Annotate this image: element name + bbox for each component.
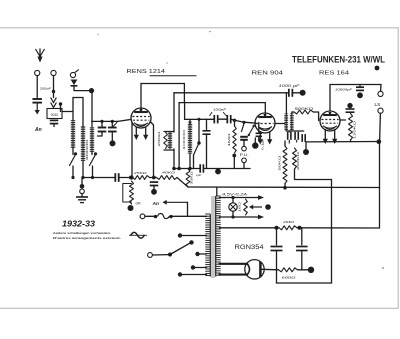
stub below cap [53, 124, 55, 127]
wire V3 right [340, 119, 346, 121]
stub Y3 to transformer [216, 188, 218, 197]
short wire under label [150, 75, 196, 77]
svg-text:RGN354: RGN354 [235, 244, 264, 251]
junction Y3 x285 [283, 186, 287, 190]
dot below 10000pF [357, 92, 363, 98]
capacitor anode V3 [346, 109, 355, 112]
svg-text:P.U.: P.U. [240, 153, 249, 157]
capacitor PU [240, 137, 248, 140]
junction left of box [59, 102, 62, 105]
wire x184 to chain [184, 103, 186, 120]
tube REN904 V2 [255, 113, 275, 133]
svg-text:1MΩ: 1MΩ [227, 132, 231, 147]
coupling coil primary [284, 114, 288, 132]
fuse dot right [169, 215, 172, 218]
svg-text:An: An [34, 127, 42, 133]
cathode arrows V2 [258, 131, 273, 145]
svg-text:200KΩ: 200KΩ [296, 151, 300, 170]
wire REN904 top [264, 103, 266, 114]
resistor 1M grid leak [233, 126, 236, 153]
resistor 2M smoothing [279, 226, 297, 230]
junction LS return [377, 139, 382, 144]
junction Y1 x174 [172, 167, 176, 171]
series sensor symbol [71, 80, 78, 86]
resistor 30K to Y3 [186, 169, 190, 188]
svg-text:100pF: 100pF [213, 108, 228, 112]
coil L1 [71, 120, 75, 148]
lamp stub top [232, 198, 234, 203]
wire fuse to transformer [173, 215, 207, 217]
stub blob Y1 [217, 169, 219, 171]
AC sine symbol [129, 232, 147, 238]
junction Y2 coil L3 [91, 176, 94, 179]
svg-text:16Ω: 16Ω [237, 201, 241, 212]
stub cap C7 [206, 119, 208, 129]
coupling coil secondary [290, 114, 294, 132]
svg-text:D'autres arrangements existent: D'autres arrangements existent. [53, 236, 121, 240]
arrow heater left [249, 205, 262, 210]
tap wire 2 [200, 253, 207, 255]
loudspeaker terminal LS2 [378, 108, 383, 113]
switch grid [248, 125, 255, 136]
capacitor C11 [295, 132, 298, 140]
junction dot A3 wire [89, 88, 94, 93]
stub cap x153 [153, 186, 155, 189]
svg-text:TELEFUNKEN-231 W/WL: TELEFUNKEN-231 W/WL [292, 55, 385, 65]
filament wire top [219, 197, 258, 199]
resistor 25K [133, 176, 150, 180]
wire x199 down [198, 119, 200, 142]
capacitor 200pF antenna [32, 99, 42, 103]
svg-text:RENS 1214: RENS 1214 [127, 69, 166, 75]
filter cap wire 2 [301, 228, 303, 245]
capacitor C10 [288, 132, 291, 140]
capacitor 1000pF [289, 89, 293, 97]
selector pivot [168, 253, 172, 257]
dial lamp [229, 203, 237, 211]
wire grid cap [258, 123, 260, 133]
stub dot C11 [305, 143, 307, 149]
switch S3 pivot [197, 141, 200, 144]
wire under coupling coil [286, 130, 303, 132]
wire C7 to bus [206, 135, 208, 169]
ink blot near title [375, 66, 380, 71]
svg-text:25KΩ: 25KΩ [132, 171, 147, 175]
pair bottom stub [164, 149, 174, 151]
svg-text:RES 164: RES 164 [319, 71, 349, 77]
speck 3 [382, 267, 384, 269]
wire Y2 to ground [81, 178, 83, 185]
wire coil to 500K [292, 112, 294, 114]
wire y93 link [174, 92, 288, 94]
filter cap wire 1 [276, 228, 278, 245]
switch S3 [194, 143, 200, 155]
svg-text:1932-33: 1932-33 [62, 220, 95, 229]
stub anode cap [349, 106, 351, 109]
switch S2 [90, 155, 96, 166]
wire caps to REN904 grid [231, 119, 256, 123]
wire 500K to RES164 grid [313, 112, 318, 121]
dot above anode cap [347, 103, 352, 108]
tube RGN354 V4 [245, 260, 264, 279]
terminal above ground [80, 189, 85, 194]
stub L3 bottom [91, 152, 93, 155]
junction chain x199 [198, 118, 201, 121]
stub L1 bottom [72, 148, 74, 155]
svg-text:10000: 10000 [182, 129, 186, 150]
wave trap box 0010 [47, 109, 62, 119]
chain wire y119 [185, 118, 215, 120]
switch S1 [70, 155, 76, 166]
wire under T1 [98, 132, 103, 137]
coil L2 [81, 126, 85, 161]
stub cathode left V2 [254, 138, 256, 143]
switch tick at A3 [75, 70, 78, 72]
speck 2 [209, 31, 211, 33]
dot above ground [80, 184, 85, 189]
pair top stub [164, 131, 174, 133]
transformer secondary winding [216, 196, 221, 277]
resistor 16 ohm [244, 199, 248, 215]
tube RENS1214 V1 [131, 108, 151, 128]
svg-text:10000pF: 10000pF [335, 88, 354, 92]
wire PU to bus [243, 163, 245, 169]
junction on A2 wire [52, 90, 55, 93]
lamp junction top [231, 196, 234, 199]
tap wire 1 [182, 235, 207, 237]
wire y141 output [306, 141, 380, 143]
stub junction [60, 104, 62, 112]
svg-text:50KΩ: 50KΩ [278, 154, 282, 170]
double arrowheads down [51, 98, 57, 108]
dot 1000pF [300, 90, 306, 96]
junction Y4 b [298, 226, 302, 230]
wire down to coil L3 [91, 93, 93, 127]
coil L4 cathode [168, 132, 172, 150]
capacitor series Y2 [115, 173, 118, 182]
bottom return wire [277, 282, 332, 284]
mains terminal M2 [148, 253, 153, 258]
wire V2 anode out [275, 123, 285, 125]
switch PU [242, 124, 245, 132]
coupling wire y103 [179, 102, 265, 104]
wire L5 top [189, 119, 191, 123]
wire RES164 top [329, 85, 331, 112]
stub 50K top [284, 141, 286, 146]
antenna terminal A1 [35, 70, 40, 75]
wire L2 to bus [82, 161, 84, 178]
svg-text:200Ω: 200Ω [157, 130, 161, 147]
resistor 50K [283, 146, 287, 184]
label ticks 100pF [210, 112, 227, 116]
stub C10 [288, 130, 290, 133]
capacitor C7 [203, 131, 211, 134]
wire S3 to bus [193, 155, 195, 169]
terminal PU1 [242, 146, 247, 151]
stub C10b [289, 140, 296, 144]
coil L5 anode load [188, 123, 192, 154]
wire A3 to junction [74, 86, 89, 91]
arrow to An [35, 103, 40, 115]
svg-text:Andere schaltungen vorhanden.: Andere schaltungen vorhanden. [53, 231, 111, 235]
wire 200K to x331 [295, 169, 332, 180]
filter capacitor C14 [296, 247, 308, 251]
junction Y2 coil L1 [71, 176, 74, 179]
resistor 40K [157, 176, 178, 180]
resistor 120K [349, 114, 353, 141]
stub 120K bottom [350, 140, 352, 142]
resistor 600 ohm [279, 268, 298, 272]
junction Y2 x153 [152, 176, 156, 180]
capacitor C12 [302, 134, 305, 142]
wire 600 ohm out [298, 269, 309, 271]
wire top of coil L2 [73, 98, 83, 127]
coil L5 top arrow [188, 122, 192, 126]
svg-text:40KΩ: 40KΩ [162, 171, 176, 175]
dot below cap x153 [151, 189, 157, 195]
selector arm tip [189, 240, 193, 244]
stub under T2 [111, 132, 113, 141]
resistor 200 ohm [164, 132, 168, 149]
loudspeaker terminal LS1 [378, 91, 383, 96]
wire top of coil L1 [72, 98, 74, 121]
stub grid leak top [234, 120, 236, 126]
tap dot 4 [178, 272, 182, 276]
mains terminal M1 [140, 214, 145, 219]
bus Y2 mid2 [150, 177, 157, 179]
svg-text:GR: GR [136, 202, 142, 206]
wire antenna down [36, 76, 38, 98]
svg-text:1000 pF: 1000 pF [279, 84, 302, 88]
anode bus wire y83 [141, 83, 184, 85]
wire V1 top cap [140, 84, 142, 109]
GR bypass loop [123, 184, 132, 203]
wire L5 to bus Y1 [189, 154, 191, 169]
bus Y2 mid [120, 177, 133, 179]
junction T2 [111, 120, 114, 123]
svg-text:REN 904: REN 904 [252, 71, 284, 77]
fuse dot left [154, 215, 157, 218]
tap dot 1 [178, 233, 182, 237]
anode top wire RES164 [330, 84, 381, 86]
capacitor 100pF a [214, 115, 217, 123]
junction Y2 x131 [129, 175, 133, 179]
svg-text:0010: 0010 [51, 113, 59, 117]
cathode arrows V3 [323, 129, 338, 144]
switch S1 pivot [74, 152, 77, 155]
wire V1 left side [131, 123, 133, 178]
wire grid leak to bus [233, 156, 235, 169]
junction Y4 a [275, 226, 279, 230]
wire L4 to bus Y1 [173, 149, 175, 169]
diagonal Y2 to Y3 [177, 178, 188, 188]
bus Y4 right [297, 188, 380, 229]
svg-text:30KΩ: 30KΩ [189, 172, 193, 185]
wire x379 to Y3 [379, 142, 381, 188]
svg-text:4,5V-0,2A: 4,5V-0,2A [222, 192, 248, 196]
lamp junction bottom [231, 215, 234, 218]
coil L3 [90, 127, 94, 152]
filter cap wire 2b [301, 251, 303, 270]
resistor 0.1M GR [130, 181, 134, 204]
dot below GR [128, 205, 134, 211]
dot below C11 [303, 149, 309, 155]
trimmer tick T2 [114, 122, 118, 126]
wire box to coil L1 [62, 111, 73, 113]
svg-text:30000: 30000 [85, 139, 89, 161]
rectifier feed top [219, 263, 247, 265]
resistor 500K [294, 110, 313, 114]
dot grid leak bottom [232, 154, 236, 158]
svg-text:An: An [152, 201, 159, 207]
rectifier feed bottom [219, 274, 247, 276]
junction Y2 coil L2 [81, 176, 84, 179]
wire x185 down [183, 84, 185, 103]
wire from A2 down [53, 76, 55, 98]
junction T1 [100, 120, 103, 123]
filament wire bottom [219, 216, 258, 218]
junction Y1 x179 [177, 167, 181, 171]
lamp stub bottom [232, 211, 234, 217]
speck 1 [97, 34, 98, 35]
tap wire 3 [195, 267, 207, 269]
transformer core [211, 196, 214, 278]
svg-text:600Ω: 600Ω [282, 276, 297, 280]
wire LS2 down [379, 113, 382, 141]
stub PU [243, 140, 245, 146]
switch S2 pivot [94, 152, 97, 155]
resistor 200K [293, 148, 297, 169]
speck 4 [166, 62, 167, 63]
tap wire 4 [182, 274, 207, 276]
wire M1 to fuse [145, 215, 154, 217]
terminal A2 [51, 70, 56, 75]
bus Y2 [82, 177, 114, 179]
wire L3 to bus [92, 166, 94, 178]
wire L1 to bus [72, 166, 74, 178]
junction grid leak [233, 119, 236, 122]
wire x331 vertical [331, 180, 333, 284]
grid wire to RENS1214 [92, 119, 131, 121]
stub ground [81, 194, 83, 197]
wire An drop [187, 202, 189, 216]
bus Y1 left [174, 168, 199, 170]
antenna symbol [36, 49, 45, 63]
tube RES164 V3 [320, 111, 340, 131]
stub 50K bottom [284, 184, 286, 188]
svg-text:500KΩ: 500KΩ [295, 107, 315, 111]
wire x174 down [173, 93, 175, 132]
junction Y2 x130 [129, 176, 133, 180]
trimmer capacitor T2 [108, 128, 117, 132]
capacitor 100pF b [227, 115, 230, 123]
filter cap wire 1b [276, 251, 278, 284]
wire between caps [218, 118, 227, 120]
wire grid cap down [258, 137, 260, 142]
cathode arrows V1 [134, 127, 149, 141]
tap dot 2 [195, 252, 199, 256]
capacitor 10000pF [356, 87, 364, 90]
fuse [158, 214, 170, 219]
dot HT output [308, 267, 314, 273]
filter capacitor C13 [271, 247, 283, 251]
capacitor 1uF series [200, 164, 203, 172]
svg-text:120KΩ: 120KΩ [353, 120, 357, 139]
arrowhead filament top [258, 195, 264, 200]
capacitor below bus x153 [150, 182, 159, 185]
stub cap T2 [111, 121, 113, 127]
bus Y1 right [204, 168, 250, 170]
ground symbol [76, 197, 88, 203]
junction Y1 x190 [188, 167, 191, 170]
stub cap T1 [101, 121, 103, 127]
terminal A3 [70, 72, 75, 77]
voltage selector arm [170, 243, 191, 255]
terminal PU2 [242, 158, 247, 163]
junction PU switch [242, 121, 245, 124]
wire M2 [153, 254, 169, 256]
tap dot 3 [191, 265, 195, 269]
wire x179 down [178, 103, 180, 169]
bus Y4 HT [219, 227, 279, 229]
wire V1 right side [150, 122, 153, 131]
arrow to An label [163, 200, 188, 205]
capacitor below box [50, 120, 59, 123]
svg-text:200pF: 200pF [40, 87, 51, 91]
wire coil top to y93 [285, 93, 287, 114]
trimmer capacitor T1 [98, 128, 107, 132]
cathode dot V2 [252, 142, 258, 148]
stub 10000pF [359, 85, 361, 86]
svg-text:LS: LS [375, 102, 381, 108]
transformer primary winding [205, 214, 210, 277]
svg-text:2MΩ: 2MΩ [281, 220, 295, 224]
bus Y3 [188, 186, 380, 189]
dot below trimmer T2 [110, 140, 116, 146]
junction blob Y1 [215, 169, 221, 175]
dot heater [265, 204, 271, 210]
capacitor 0.1uF grid [256, 133, 262, 136]
wire to LS1 [380, 85, 382, 92]
arrowhead filament bottom [258, 215, 264, 220]
wire rectifier out [262, 268, 279, 271]
wire x153 to bus [153, 130, 155, 178]
wire 1000pF out [292, 92, 299, 94]
